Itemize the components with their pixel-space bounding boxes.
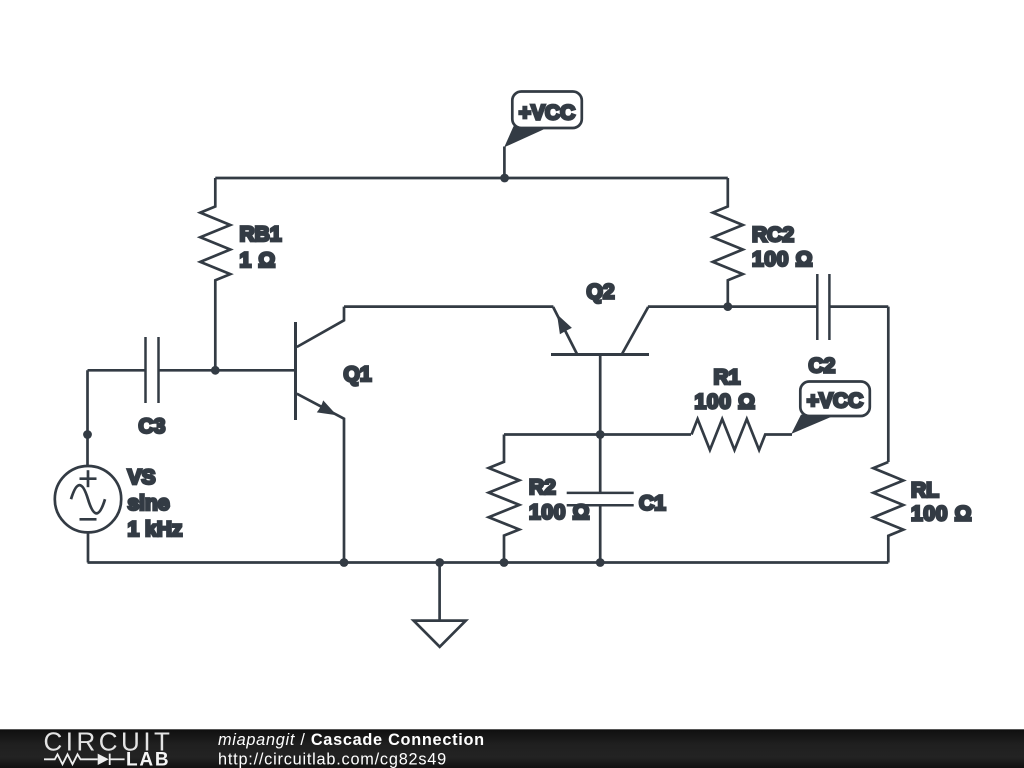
transistor Q2 [551,307,649,435]
svg-text:C2: C2 [809,355,836,378]
ground symbol [414,563,466,647]
node junction Q2 base / C1 / R1 [596,430,605,439]
svg-text:100 Ω: 100 Ω [911,503,972,526]
net flag +VCC (top) [504,92,582,179]
node junction RC2/C2 [723,302,732,311]
node junction C1/bottom [596,558,605,567]
svg-text:R2: R2 [529,476,556,499]
node junction RB1/C3/Q1 base [211,366,220,375]
node junction ground/bottom [435,558,444,567]
wire C2 to RL [887,307,890,462]
wire top horizontal rail [215,177,728,180]
svg-text:RB1: RB1 [240,223,282,246]
svg-text:100 Ω: 100 Ω [695,390,756,413]
wire mid horizontal (R2 top to R1) [504,433,691,436]
svg-text:R1: R1 [714,366,741,389]
voltage source VS [55,466,121,563]
wire VS branch (C3 left down to source) [86,370,89,466]
svg-text:C3: C3 [139,415,166,438]
capacitor C3 [88,337,296,403]
svg-text:+VCC: +VCC [519,102,576,125]
node junction R2/bottom [500,558,509,567]
svg-text:1 kHz: 1 kHz [128,518,183,541]
svg-text:RL: RL [911,479,939,502]
transistor Q1 [296,307,345,563]
capacitor C2 [728,274,889,340]
logo resistor-diode glyph [44,754,125,765]
node junction at +VCC / top rail [500,174,509,183]
svg-text:100 Ω: 100 Ω [752,248,813,271]
svg-text:1 Ω: 1 Ω [240,249,276,272]
resistor RC2 [713,178,743,307]
svg-text:LAB: LAB [126,750,170,768]
svg-text:Q1: Q1 [344,363,372,386]
capacitor C1 [567,435,634,563]
wire bottom rail [88,561,889,564]
resistor RB1 [200,178,230,370]
node junction Q1 emitter/bottom [340,558,349,567]
resistor RL [873,462,903,563]
svg-text:C1: C1 [639,492,666,515]
resistor R1 [692,419,793,450]
svg-text:Q2: Q2 [587,281,615,304]
svg-text:VS: VS [128,466,156,489]
svg-text:miapangit / Cascade Connection: miapangit / Cascade Connection [218,731,485,749]
svg-text:+VCC: +VCC [807,390,864,413]
wire Q1 collector to Q2 emitter [344,305,553,308]
svg-text:http://circuitlab.com/cg82s49: http://circuitlab.com/cg82s49 [218,751,447,768]
svg-text:sine: sine [128,492,170,515]
node dot above VS [83,430,92,439]
resistor R2 [489,435,520,563]
wire Q2 collector to RC2 node [648,305,728,308]
net flag +VCC (right) [791,382,870,434]
svg-text:RC2: RC2 [752,224,794,247]
